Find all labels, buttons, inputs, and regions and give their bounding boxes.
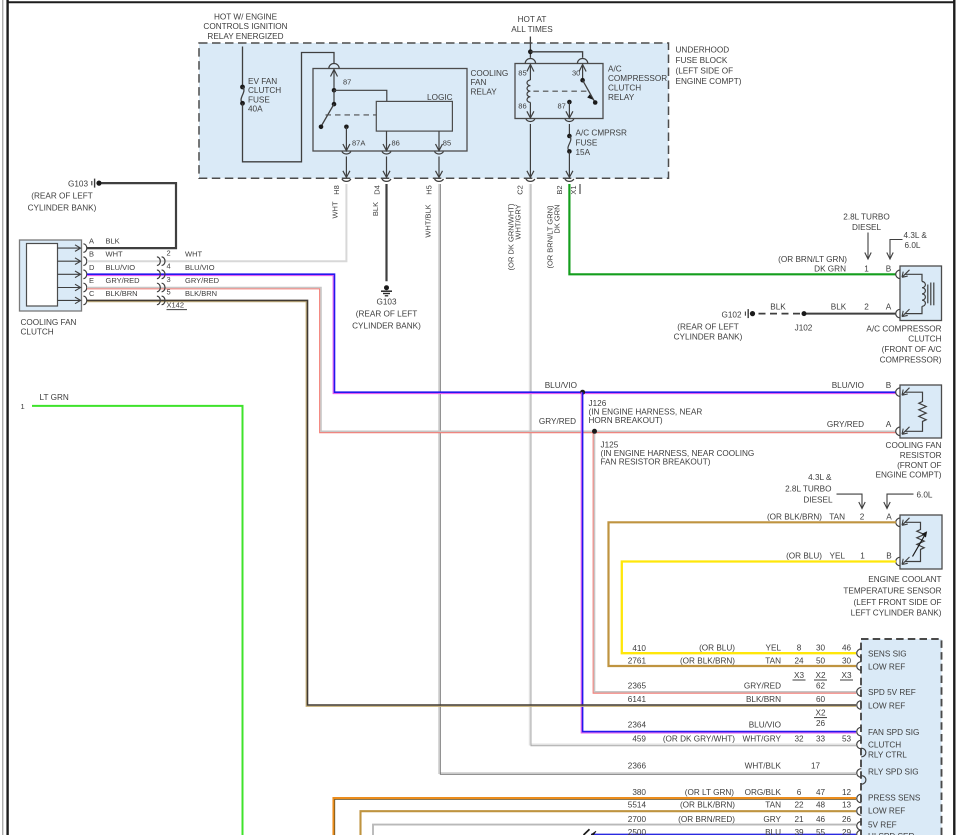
module PCM (dashed box, blue fill) [861,639,942,835]
node: HOT W/ ENGINE CONTROLS IGNITION RELAY ENERGIZED [203,12,287,41]
svg-text:GRY: GRY [763,815,781,824]
svg-text:WHT: WHT [106,250,123,259]
svg-text:DIESEL: DIESEL [803,496,833,505]
svg-text:CLUTCH: CLUTCH [21,328,54,337]
connector cups below fuse block boundary: H8 D4 H5 [342,179,351,181]
svg-text:G102: G102 [721,311,741,320]
svg-text:BLU/VIO: BLU/VIO [749,721,781,730]
svg-text:LEFT CYLINDER BANK): LEFT CYLINDER BANK) [851,608,942,617]
svg-text:47: 47 [816,788,826,797]
svg-text:TAN: TAN [765,800,781,809]
svg-text:1: 1 [860,552,865,561]
svg-text:55: 55 [816,828,826,835]
svg-text:FAN SPD SIG: FAN SPD SIG [868,728,919,737]
wire DK GRN: fuse block B2/X1 to A/C compressor clutch pin B [569,184,896,274]
svg-text:LT GRN: LT GRN [40,393,69,402]
wire: hot feed into EV fan clutch fuse [242,47,244,87]
svg-text:X2: X2 [815,709,825,718]
relay A/C COMPRESSOR CLUTCH RELAY [515,64,603,119]
wire GRY: from below to PCM 5V REF (circuit 2700) [373,825,856,835]
connector exit cups [83,244,86,305]
svg-text:40A: 40A [248,105,263,114]
relay coil actuation dashed link [326,114,377,116]
pin 85 with up arrow and coil [529,65,531,81]
PCM entry cups [857,649,866,835]
svg-text:2.8L TURBO: 2.8L TURBO [843,212,889,221]
svg-text:410: 410 [632,644,646,653]
wire TAN: ECT pin A down to PCM LOW REF (circuit 2761) [609,522,897,666]
svg-text:LOGIC: LOGIC [427,93,453,102]
svg-text:ENGINE COOLANT: ENGINE COOLANT [868,575,941,584]
wire BLK/BRN: pin C through X142 down to PCM LOW REF (circuit 6141) [87,302,856,707]
svg-text:CLUTCH: CLUTCH [248,86,281,95]
svg-text:TAN: TAN [829,513,845,522]
svg-text:BLK: BLK [770,303,786,312]
svg-text:86: 86 [518,102,526,111]
svg-text:RELAY: RELAY [471,88,498,97]
svg-text:50: 50 [816,656,826,665]
circuit 459 WHT/GRY row labels [632,735,781,744]
svg-text:CYLINDER BANK): CYLINDER BANK) [352,322,421,331]
fuse EV FAN CLUTCH 40A [240,85,245,90]
svg-text:5514: 5514 [628,800,647,809]
fuse A/C CMPRSR 15A [568,124,570,136]
svg-text:86: 86 [392,138,400,147]
svg-text:C: C [89,289,95,298]
svg-text:A/C: A/C [608,65,622,74]
svg-text:5V REF: 5V REF [868,821,897,830]
svg-text:8: 8 [797,644,802,653]
svg-text:DK GRN: DK GRN [814,264,846,273]
pin letters and wire colours [89,237,140,298]
svg-text:G103: G103 [376,298,396,307]
wire: branch to pin 30 [530,52,582,58]
wire GRY/RED: pin E through X142, J125, to cooling fan resistor pin A [87,289,896,433]
svg-text:4.3L &: 4.3L & [808,473,832,482]
svg-text:RLY CTRL: RLY CTRL [868,750,907,759]
pin 86 down arrow [529,102,531,117]
wire ORG/BLK: from below to PCM PRESS SENS (circuit 380) [335,799,856,835]
svg-text:3: 3 [167,275,171,284]
svg-text:WHT/BLK: WHT/BLK [424,204,433,237]
svg-text:GRY/RED: GRY/RED [539,417,576,426]
svg-text:(OR BLU): (OR BLU) [699,644,735,653]
pin B entry cup and arrow [896,388,901,397]
svg-text:RELAY ENERGIZED: RELAY ENERGIZED [207,32,283,41]
pin 87 with up arrow [333,70,335,91]
svg-text:BLK/BRN: BLK/BRN [746,695,781,704]
pin A entry cup and arrow [896,518,901,527]
svg-text:46: 46 [842,644,852,653]
junction J126 [580,390,585,395]
svg-text:6.0L: 6.0L [905,241,921,250]
svg-text:48: 48 [816,800,826,809]
svg-text:WHT: WHT [331,201,340,218]
svg-text:X3: X3 [794,671,804,680]
pin B entry cup and arrow [896,270,901,279]
splice J102 [802,311,807,316]
svg-text:29: 29 [842,828,852,835]
svg-text:YEL: YEL [766,644,782,653]
svg-text:LOW REF: LOW REF [868,807,905,816]
component A/C COMPRESSOR CLUTCH [900,266,942,321]
svg-text:26: 26 [842,815,852,824]
svg-text:22: 22 [794,800,804,809]
svg-text:HOT AT: HOT AT [518,15,547,24]
svg-text:RLY SPD SIG: RLY SPD SIG [868,768,919,777]
svg-text:YEL: YEL [830,552,846,561]
svg-text:ALL TIMES: ALL TIMES [511,25,553,34]
svg-text:B2: B2 [555,185,564,194]
coil actuation dashed link [533,90,588,92]
svg-text:ORG/BLK: ORG/BLK [745,788,782,797]
wire BLU: to PCM HI SPD SER (circuit 2500) [591,834,856,835]
svg-text:RESISTOR: RESISTOR [900,451,942,460]
pin 87A [344,125,349,130]
svg-text:6.0L: 6.0L [917,491,933,500]
circuit 380 ORG/BLK row labels [632,788,781,797]
svg-text:30: 30 [842,656,852,665]
variable arrow through thermistor [913,533,927,557]
svg-text:6141: 6141 [628,695,647,704]
svg-text:J102: J102 [795,324,813,333]
svg-text:30: 30 [572,69,580,78]
svg-text:(OR DK GRY/WHT): (OR DK GRY/WHT) [663,735,735,744]
svg-text:2366: 2366 [628,762,647,771]
wire BLU/VIO: pin D through X142, J126, to cooling fan resistor pin B [87,276,896,394]
wire: fuse output to cooling fan relay pin 87 [243,53,335,162]
pin B entry cup and arrow [896,557,901,566]
wire WHT: pin B through X142 to fuse block H8 [87,184,346,261]
svg-text:GRY/RED: GRY/RED [827,420,864,429]
svg-text:2364: 2364 [628,721,647,730]
svg-text:1: 1 [21,402,25,411]
wire: hot at all times feed [529,37,531,58]
logic module LOGIC [376,101,452,131]
connector pins with arrows (A B D E C) [58,245,81,304]
clutch coil internals [905,274,922,281]
svg-text:BLU: BLU [765,828,781,835]
wire: fuse to boundary (B2) [568,151,570,177]
svg-text:(OR BLK/BRN): (OR BLK/BRN) [767,513,822,522]
connector arcs atop A/C relay [525,59,535,64]
pin A entry cup and arrow [896,309,901,318]
svg-text:CONTROLS IGNITION: CONTROLS IGNITION [203,22,287,31]
svg-text:GRY/RED: GRY/RED [106,276,141,285]
wire WHT/BLK: fuse block H5 down to PCM RLY SPD SIG [439,184,856,773]
svg-text:(LEFT FRONT SIDE OF: (LEFT FRONT SIDE OF [854,598,942,607]
svg-text:COOLING FAN: COOLING FAN [886,441,942,450]
svg-text:(FRONT OF: (FRONT OF [897,461,941,470]
svg-text:4: 4 [167,262,171,271]
wire: pin 86 to fuse block boundary (C2) [529,124,531,177]
svg-text:SPD 5V REF: SPD 5V REF [868,688,916,697]
labels cooling fan resistor [876,441,942,480]
PCM pin function labels [868,650,921,835]
svg-text:A: A [886,303,892,312]
svg-text:46: 46 [816,815,826,824]
svg-text:BLK: BLK [106,237,120,246]
svg-text:COMPRESSOR): COMPRESSOR) [880,356,942,365]
svg-text:HOT W/ ENGINE: HOT W/ ENGINE [214,12,278,21]
connector cups below relay bottom edge [342,152,351,154]
svg-text:CYLINDER BANK): CYLINDER BANK) [28,204,97,213]
wire BLK: fuse block D4 down to ground [385,184,387,281]
svg-text:WHT/GRY: WHT/GRY [514,204,523,239]
pin 30 with up arrow [582,65,584,81]
svg-text:H5: H5 [425,185,434,195]
svg-text:EV FAN: EV FAN [248,77,277,86]
relay switch arm [332,102,337,107]
wire BLU/VIO branch: J126 down to PCM FAN SPD SIG (circuit 2364) [581,392,856,733]
svg-text:C2: C2 [516,185,525,195]
label: underhood fuse block [676,46,742,87]
svg-text:53: 53 [842,735,852,744]
svg-text:FAN RESISTOR BREAKOUT): FAN RESISTOR BREAKOUT) [601,457,711,466]
svg-text:HORN BREAKOUT): HORN BREAKOUT) [589,416,663,425]
junction node on hot feed [528,49,533,54]
svg-text:WHT/BLK: WHT/BLK [745,762,782,771]
svg-text:BLK/BRN: BLK/BRN [106,289,138,298]
wire GRY/RED branch: J125 down to PCM SPD 5V REF (circuit 2365) [593,431,856,693]
svg-text:CLUTCH: CLUTCH [868,740,901,749]
switch arm of A/C relay [580,78,585,83]
svg-text:(OR LT GRN): (OR LT GRN) [685,788,735,797]
svg-text:2: 2 [860,513,865,522]
svg-text:12: 12 [842,788,852,797]
svg-text:(OR BRN/LT GRN): (OR BRN/LT GRN) [778,255,847,264]
svg-text:ENGINE COMPT): ENGINE COMPT) [676,77,742,86]
circuit 5514 TAN row labels [628,800,781,809]
svg-text:459: 459 [632,735,646,744]
svg-text:(OR BLU): (OR BLU) [786,552,822,561]
svg-text:COOLING FAN: COOLING FAN [21,318,77,327]
svg-text:21: 21 [794,815,804,824]
svg-text:(FRONT OF A/C: (FRONT OF A/C [882,345,942,354]
svg-text:D4: D4 [373,185,382,195]
svg-text:13: 13 [842,800,852,809]
svg-text:2500: 2500 [628,828,647,835]
connector cups below A/C relay [526,119,535,121]
svg-text:LOW REF: LOW REF [868,662,905,671]
svg-text:17: 17 [811,762,821,771]
svg-text:LOW REF: LOW REF [868,701,905,710]
svg-text:X3: X3 [841,671,851,680]
svg-text:(REAR OF LEFT: (REAR OF LEFT [356,310,417,319]
svg-text:85: 85 [443,138,451,147]
svg-text:UNDERHOOD: UNDERHOOD [676,46,730,55]
relay COOLING FAN RELAY [313,69,467,152]
connector ids X3 X2 X3 (underlined) [794,671,852,680]
svg-text:G103: G103 [68,180,88,189]
svg-text:87: 87 [343,78,351,87]
svg-text:2700: 2700 [628,815,647,824]
svg-text:B: B [886,264,892,273]
svg-text:A: A [886,513,892,522]
svg-text:FUSE: FUSE [248,95,270,104]
connector COOLING FAN CLUTCH [20,240,82,311]
svg-text:(REAR OF LEFT: (REAR OF LEFT [31,192,92,201]
pin numbers after X142 [167,249,220,298]
svg-text:CLUTCH: CLUTCH [908,335,941,344]
svg-text:B: B [89,250,94,259]
dashed wire BLK to ground G102 [755,313,800,315]
svg-text:2.8L TURBO: 2.8L TURBO [785,485,831,494]
svg-text:2: 2 [864,303,869,312]
wire WHT/GRY: fuse block C2 down to PCM CLUTCH RLY CTRL [530,184,856,745]
svg-text:GRY/RED: GRY/RED [185,276,220,285]
svg-text:87: 87 [558,102,566,111]
svg-text:DK GRN: DK GRN [553,204,562,233]
wire BLK: clutch pin A to J102 [804,313,896,315]
svg-text:FUSE: FUSE [576,138,598,147]
svg-text:380: 380 [632,788,646,797]
svg-text:X2: X2 [815,671,825,680]
pin 85 [438,131,440,150]
svg-text:B: B [886,381,892,390]
svg-text:WHT: WHT [185,250,202,259]
pin A entry cup and arrow [896,427,901,436]
svg-text:FAN: FAN [471,78,487,87]
svg-text:26: 26 [816,719,826,728]
resistor element internals [905,392,926,431]
svg-text:1: 1 [864,264,869,273]
labels engine coolant temperature sensor [843,575,941,617]
wire BLK: pin A to G103 [87,183,177,248]
svg-text:(OR BRN/RED): (OR BRN/RED) [678,815,735,824]
svg-text:85: 85 [518,69,526,78]
svg-text:CYLINDER BANK): CYLINDER BANK) [674,333,743,342]
svg-text:2: 2 [167,249,171,258]
svg-text:ENGINE COMPT): ENGINE COMPT) [876,471,942,480]
svg-text:CLUTCH: CLUTCH [608,83,641,92]
connector cups below boundary: C2 B2 [526,179,535,181]
ground G103 (top left) [28,180,97,213]
svg-text:2365: 2365 [628,682,647,691]
svg-text:WHT/GRY: WHT/GRY [742,735,781,744]
svg-text:H8: H8 [332,185,341,195]
wire: pin 87 to logic module [334,90,387,101]
wire TAN: from below to PCM LOW REF (circuit 5514) [361,811,857,835]
wire YEL: ECT pin B down to PCM SENS SIG (circuit 410) [622,562,896,654]
svg-text:COMPRESSOR: COMPRESSOR [608,74,667,83]
svg-text:GRY/RED: GRY/RED [744,682,781,691]
svg-text:A/C CMPRSR: A/C CMPRSR [576,129,627,138]
svg-text:BLU/VIO: BLU/VIO [545,381,577,390]
svg-text:A/C COMPRESSOR: A/C COMPRESSOR [866,324,941,333]
svg-text:4.3L &: 4.3L & [904,231,928,240]
svg-text:BLU/VIO: BLU/VIO [832,381,864,390]
wires from relay pins to fuse block boundary [345,157,347,178]
svg-text:15A: 15A [576,148,591,157]
svg-text:RELAY: RELAY [608,93,635,102]
svg-text:A: A [89,237,94,246]
svg-text:(OR BLK/BRN): (OR BLK/BRN) [680,800,735,809]
svg-text:BLK: BLK [831,303,847,312]
connector arc atop relay (pin 87 feed) [329,64,339,69]
svg-text:BLK/BRN: BLK/BRN [185,289,217,298]
circuit 2761 TAN row labels [628,656,781,665]
circuit 2700 GRY row labels [628,815,782,824]
pin 86 [386,131,388,150]
svg-text:(OR BLK/BRN): (OR BLK/BRN) [680,656,735,665]
svg-text:BLU/VIO: BLU/VIO [185,263,215,272]
ground G102 [744,312,746,316]
svg-text:COOLING: COOLING [471,69,509,78]
component ENGINE COOLANT TEMPERATURE SENSOR [900,515,942,569]
svg-text:32: 32 [794,735,804,744]
svg-text:SENS SIG: SENS SIG [868,650,907,659]
svg-text:87A: 87A [352,138,365,147]
svg-text:PRESS SENS: PRESS SENS [868,794,921,803]
underhood fuse block (dashed box, blue fill) [199,43,669,178]
svg-text:(LEFT SIDE OF: (LEFT SIDE OF [676,67,734,76]
svg-text:E: E [89,276,94,285]
svg-text:D: D [89,263,95,272]
svg-text:2761: 2761 [628,656,647,665]
thermistor element internals [905,522,924,561]
svg-text:BLK: BLK [371,202,380,216]
labels A/C compressor clutch [866,324,941,364]
node: HOT AT ALL TIMES [511,15,553,34]
svg-text:62: 62 [816,682,826,691]
component COOLING FAN RESISTOR [900,385,942,438]
ground G103 (below D4) [384,285,389,290]
svg-text:TAN: TAN [765,656,781,665]
svg-text:DIESEL: DIESEL [852,223,882,232]
svg-text:FUSE BLOCK: FUSE BLOCK [676,56,728,65]
svg-text:24: 24 [794,656,804,665]
svg-text:60: 60 [816,695,826,704]
svg-text:(REAR OF LEFT: (REAR OF LEFT [677,323,738,332]
pin 87 [567,100,572,105]
svg-text:39: 39 [794,828,804,835]
svg-text:TEMPERATURE SENSOR: TEMPERATURE SENSOR [843,586,941,595]
svg-text:A: A [886,420,892,429]
coil of A/C relay [527,80,530,102]
inline connector X142 arcs on rows B D E C [157,257,165,305]
circuit 410 YEL row labels [632,644,781,654]
junction J125 [592,429,597,434]
svg-text:30: 30 [816,644,826,653]
option slash marker 1 [584,829,590,835]
svg-text:33: 33 [816,735,826,744]
svg-text:BLU/VIO: BLU/VIO [106,263,136,272]
svg-text:6: 6 [797,788,802,797]
svg-text:B: B [886,552,892,561]
